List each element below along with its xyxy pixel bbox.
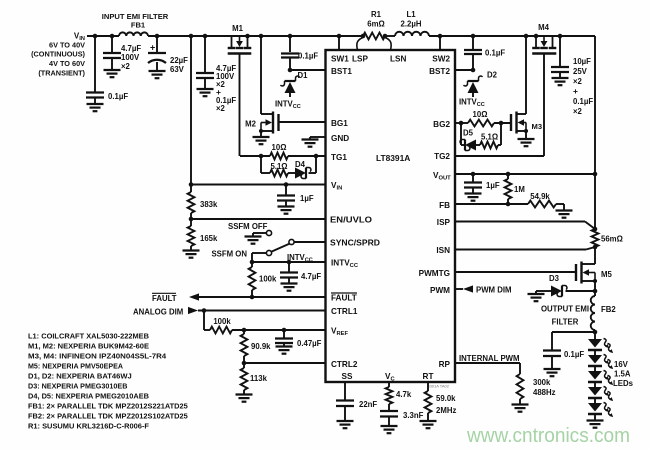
- svg-text:90.9k: 90.9k: [251, 342, 271, 351]
- transistor M5: [576, 247, 612, 284]
- resistor 113k: [236, 363, 268, 402]
- VIN label: [31, 32, 85, 78]
- svg-text:0.1µF: 0.1µF: [485, 49, 505, 58]
- svg-text:R1: R1: [371, 10, 382, 19]
- svg-text:SYNC/SPRD: SYNC/SPRD: [330, 238, 380, 248]
- svg-text:0.1µF: 0.1µF: [108, 92, 128, 101]
- svg-text:×2: ×2: [573, 77, 583, 86]
- ground M2 source: [253, 131, 270, 144]
- svg-text:GND: GND: [331, 134, 349, 143]
- svg-text:16V: 16V: [614, 360, 629, 369]
- wire CTRL2 pin: [242, 361, 325, 366]
- svg-text:LEDs: LEDs: [613, 379, 634, 388]
- svg-text:4.7µF: 4.7µF: [301, 272, 321, 281]
- svg-text:D1, D2: NEXPERIA BAT46WJ: D1, D2: NEXPERIA BAT46WJ: [28, 372, 132, 381]
- ground M3 source: [518, 131, 535, 146]
- wire PWM pin with PWM DIM arrow: [455, 285, 512, 294]
- svg-text:6mΩ: 6mΩ: [367, 20, 385, 29]
- svg-text:LSN: LSN: [390, 55, 406, 64]
- svg-text:25V: 25V: [573, 67, 588, 76]
- svg-text:113k: 113k: [250, 374, 268, 383]
- svg-text:(CONTINUOUS): (CONTINUOUS): [31, 50, 85, 59]
- svg-text:BST1: BST1: [331, 67, 352, 76]
- capacitor 4.7uF 100V x2 + 0.1uF x2: [196, 34, 236, 113]
- inductor L1 2.2uH: [395, 10, 429, 36]
- diode D3 schottky: [528, 274, 598, 301]
- svg-text:RT: RT: [423, 372, 434, 381]
- svg-text:1µF: 1µF: [300, 194, 314, 203]
- wire M2 gate BG1: [279, 121, 326, 123]
- capacitor 22uF 63V electrolytic: [148, 34, 188, 78]
- svg-text:FAULT: FAULT: [331, 294, 357, 303]
- transistor M2: [245, 112, 278, 134]
- resistor 10 ohm TG1: [240, 143, 325, 159]
- svg-text:L1: L1: [406, 10, 416, 19]
- svg-text:EN/UVLO: EN/UVLO: [330, 215, 373, 225]
- svg-text:FB1: 2× PARALLEL TDK MPZ2012S2: FB1: 2× PARALLEL TDK MPZ2012S221ATD25: [28, 402, 188, 411]
- svg-text:300k: 300k: [533, 378, 551, 387]
- svg-text:10Ω: 10Ω: [473, 110, 488, 119]
- svg-text:4V TO 60V: 4V TO 60V: [49, 59, 85, 68]
- svg-text:M1: M1: [232, 24, 243, 33]
- svg-text:ISN: ISN: [436, 246, 450, 255]
- svg-text:ANALOG DIM: ANALOG DIM: [133, 308, 183, 317]
- wire SW2 pin stub: [438, 34, 443, 50]
- svg-text:LT8391A: LT8391A: [376, 153, 410, 163]
- svg-text:FAULT: FAULT: [152, 294, 177, 303]
- capacitor 0.1uF input: [86, 34, 128, 112]
- wire VIN pin: [189, 182, 325, 187]
- wire ISN pin: [455, 245, 597, 250]
- svg-text:383k: 383k: [200, 200, 218, 209]
- svg-text:54.9k: 54.9k: [530, 192, 550, 201]
- svg-text:4.7k: 4.7k: [396, 390, 412, 399]
- ferrite bead FB1: [119, 21, 148, 37]
- capacitor 0.1uF output: [543, 330, 597, 377]
- wire PWMTG to M5 gate: [455, 271, 576, 273]
- wire FB pin and resistor 54.9k: [455, 192, 573, 218]
- svg-text:TG2: TG2: [434, 152, 450, 161]
- svg-text:FILTER: FILTER: [552, 318, 579, 327]
- top supply rail wire: [87, 35, 595, 37]
- svg-text:R1: SUSUMU KRL3216D-C-R006-F: R1: SUSUMU KRL3216D-C-R006-F: [28, 422, 150, 431]
- capacitor 0.47uF VREF: [275, 328, 322, 354]
- svg-text:22nF: 22nF: [359, 400, 377, 409]
- svg-text:1M: 1M: [514, 185, 525, 194]
- svg-text:D3: NEXPERIA PMEG3010EB: D3: NEXPERIA PMEG3010EB: [28, 382, 127, 391]
- svg-text:OUTPUT EMI: OUTPUT EMI: [541, 305, 589, 314]
- IC U1 LT8391A: [326, 50, 456, 389]
- wire INTVCC pin: [250, 260, 325, 265]
- resistor 1M: [505, 172, 525, 207]
- wire left rail from top: [189, 34, 194, 192]
- switch SSFM ON contact and lever: [211, 239, 325, 262]
- svg-text:M4: M4: [538, 23, 549, 32]
- svg-text:D1: D1: [298, 71, 309, 80]
- transistor M1: [228, 24, 252, 54]
- wire FAULT pin with arrow: [152, 293, 325, 303]
- svg-text:M5: NEXPERIA PMV50EPEA: M5: NEXPERIA PMV50EPEA: [28, 362, 124, 371]
- diode D2 schottky to INTVCC: [455, 68, 498, 108]
- svg-text:4.7µF: 4.7µF: [121, 44, 141, 53]
- svg-text:8391A TA02: 8391A TA02: [427, 384, 449, 389]
- svg-text:BG1: BG1: [331, 119, 348, 128]
- svg-text:PWM DIM: PWM DIM: [476, 286, 512, 295]
- title INPUT EMI FILTER: [102, 12, 169, 21]
- svg-text:56mΩ: 56mΩ: [601, 235, 623, 244]
- svg-text:×2: ×2: [216, 104, 226, 113]
- transistor M4: [532, 23, 556, 54]
- svg-text:3.3nF: 3.3nF: [403, 411, 424, 420]
- svg-text:M5: M5: [601, 270, 612, 279]
- svg-text:BST2: BST2: [429, 67, 450, 76]
- svg-text:TG1: TG1: [331, 153, 347, 162]
- svg-text:D3: D3: [549, 274, 560, 283]
- svg-text:ISP: ISP: [437, 218, 451, 227]
- component list text: [28, 332, 188, 431]
- wire ANALOG DIM to CTRL1: [133, 307, 325, 317]
- wire M1 gate to TG1 network: [239, 54, 241, 157]
- svg-text:CTRL2: CTRL2: [331, 360, 358, 369]
- resistor 100k to VREF: [204, 311, 325, 334]
- diode D5 and resistor 5.1 ohm BG2: [460, 123, 501, 151]
- svg-text:SSFM OFF: SSFM OFF: [228, 222, 268, 231]
- svg-text:FB1: FB1: [131, 21, 146, 30]
- capacitor 0.1uF BST1: [281, 34, 318, 70]
- svg-text:SW2: SW2: [432, 55, 450, 64]
- capacitor 1uF VOUT: [464, 172, 500, 201]
- svg-text:1µF: 1µF: [486, 181, 500, 190]
- svg-text:SW1: SW1: [331, 55, 349, 64]
- svg-text:×2: ×2: [573, 107, 583, 116]
- svg-text:2.2µH: 2.2µH: [401, 20, 422, 29]
- svg-text:SS: SS: [342, 372, 353, 381]
- diode D4: [295, 156, 316, 179]
- svg-text:+: +: [150, 43, 155, 53]
- svg-text:FB2: 2× PARALLEL TDK MPZ2012S1: FB2: 2× PARALLEL TDK MPZ2012S102ATD25: [28, 412, 188, 421]
- resistor R1 6mOhm sense: [357, 10, 391, 50]
- capacitor 4.7uF INTVCC: [280, 253, 321, 291]
- svg-text:M3, M4: INFINEON IPZ40N04S5L-7: M3, M4: INFINEON IPZ40N04S5L-7R4: [28, 352, 167, 361]
- svg-text:M1, M2: NEXPERIA BUK9M42-60E: M1, M2: NEXPERIA BUK9M42-60E: [28, 342, 149, 351]
- LED string D6: [587, 339, 634, 428]
- svg-text:0.1µF: 0.1µF: [298, 52, 318, 61]
- wire ISP pin: [455, 222, 597, 232]
- switch SSFM OFF contact: [228, 222, 272, 244]
- svg-text:BG2: BG2: [433, 120, 450, 129]
- svg-text:2MHz: 2MHz: [436, 406, 456, 415]
- svg-text:10µF: 10µF: [573, 57, 591, 66]
- svg-text:L1: COILCRAFT XAL5030-222MEB: L1: COILCRAFT XAL5030-222MEB: [28, 332, 149, 341]
- transistor M3: [511, 112, 542, 134]
- svg-text:5.1Ω: 5.1Ω: [270, 162, 287, 171]
- svg-text:488Hz: 488Hz: [533, 388, 556, 397]
- ferrite bead FB2: [541, 296, 616, 330]
- watermark: [466, 424, 630, 447]
- capacitor 1uF VIN: [277, 182, 314, 214]
- svg-text:INTERNAL PWM: INTERNAL PWM: [459, 354, 520, 363]
- resistor 383k: [188, 192, 218, 213]
- wire M3 drain to rail: [524, 34, 529, 114]
- resistor 10 ohm BG2: [455, 110, 511, 126]
- svg-text:0.47µF: 0.47µF: [297, 339, 322, 348]
- resistor 165k: [183, 226, 219, 258]
- svg-text:D2: D2: [487, 71, 498, 80]
- svg-text:www.cntronics.com: www.cntronics.com: [466, 424, 630, 447]
- svg-text:D5: D5: [463, 129, 474, 138]
- svg-text:10Ω: 10Ω: [272, 143, 287, 152]
- svg-text:M3: M3: [532, 122, 543, 131]
- wire SS pin capacitor 22nF: [336, 382, 377, 428]
- ground GND pin: [302, 137, 326, 147]
- svg-text:LSP: LSP: [352, 55, 368, 64]
- capacitor 0.1uF BST2: [464, 34, 505, 70]
- svg-text:59.0k: 59.0k: [436, 394, 456, 403]
- svg-text:100V: 100V: [121, 53, 140, 62]
- wire VC pin resistor 4.7k capacitor 3.3nF: [380, 382, 424, 433]
- svg-text:(TRANSIENT): (TRANSIENT): [38, 69, 85, 78]
- wire VOUT pin: [455, 172, 597, 177]
- diode D1 schottky to INTVCC: [275, 68, 325, 110]
- resistor 5.1 ohm and diode D4 TG1: [261, 156, 295, 176]
- svg-text:165k: 165k: [200, 234, 218, 243]
- svg-text:6V TO 40V: 6V TO 40V: [49, 41, 85, 50]
- svg-text:63V: 63V: [170, 65, 185, 74]
- svg-text:100k: 100k: [213, 317, 231, 326]
- resistor 90.9k: [241, 330, 272, 363]
- svg-text:SSFM ON: SSFM ON: [211, 250, 247, 259]
- svg-text:M2: M2: [245, 120, 256, 129]
- svg-text:×2: ×2: [121, 62, 131, 71]
- capacitor 10uF 25V x2 + 0.1uF x2: [551, 34, 593, 116]
- svg-text:D4, D5: NEXPERIA PMEG2010AEB: D4, D5: NEXPERIA PMEG2010AEB: [28, 392, 149, 401]
- svg-text:PWM: PWM: [430, 286, 450, 295]
- svg-text:CTRL1: CTRL1: [331, 307, 358, 316]
- svg-text:0.1µF: 0.1µF: [573, 97, 593, 106]
- wire SW1 node down to M2: [259, 34, 264, 114]
- svg-text:1.5A: 1.5A: [614, 370, 631, 379]
- svg-text:22µF: 22µF: [170, 56, 188, 65]
- svg-text:0.1µF: 0.1µF: [564, 350, 584, 359]
- svg-text:5.1Ω: 5.1Ω: [481, 133, 498, 142]
- svg-text:+: +: [573, 86, 578, 96]
- right rail wire: [594, 36, 596, 229]
- wire RT pin resistor 59.0k: [420, 382, 457, 428]
- resistor 56mOhm sense: [592, 229, 623, 247]
- svg-text:RP: RP: [439, 360, 451, 369]
- wire EN/UVLO pin: [189, 213, 325, 226]
- svg-text:D4: D4: [295, 160, 306, 169]
- svg-text:FB2: FB2: [601, 305, 616, 314]
- wire M4 gate to TG2: [455, 54, 544, 157]
- svg-text:FB: FB: [439, 201, 450, 210]
- wire RP pin resistor 300k INTERNAL PWM: [455, 354, 556, 412]
- svg-text:100k: 100k: [259, 275, 277, 284]
- svg-text:PWMTG: PWMTG: [419, 269, 450, 278]
- capacitor 4.7uF 100V x2 input: [103, 34, 141, 77]
- wire SW1 pin stub: [337, 34, 342, 50]
- resistor 100k pullup: [249, 262, 277, 297]
